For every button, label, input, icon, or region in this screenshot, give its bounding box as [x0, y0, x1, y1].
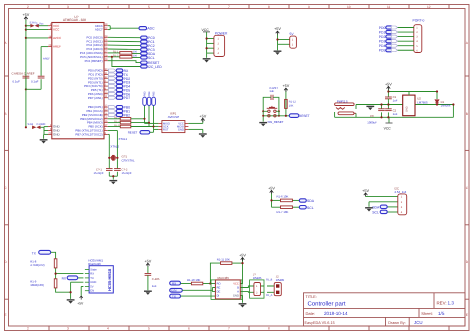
svg-text:R1_B: R1_B	[266, 278, 273, 281]
svg-text:1uF: 1uF	[269, 89, 274, 93]
svg-text:0.1uF: 0.1uF	[13, 80, 21, 84]
svg-text:REV:: REV:	[437, 301, 447, 306]
svg-text:R1-7 10K: R1-7 10K	[277, 210, 289, 214]
svg-text:5: 5	[148, 327, 150, 331]
svg-text:3: 3	[67, 327, 69, 331]
svg-text:Date:: Date:	[306, 311, 316, 316]
svg-text:R1_A: R1_A	[266, 294, 273, 297]
svg-text:9: 9	[308, 5, 310, 9]
svg-text:Drawn By:: Drawn By:	[388, 321, 406, 325]
svg-text:Controller part: Controller part	[308, 301, 346, 308]
svg-text:5V: 5V	[90, 286, 93, 289]
svg-text:VCC: VCC	[233, 283, 239, 286]
svg-text:C0: C0	[370, 114, 374, 118]
svg-text:RS485: RS485	[276, 278, 285, 282]
svg-text:EN: EN	[90, 290, 94, 293]
svg-text:4: 4	[107, 5, 109, 9]
svg-text:E: E	[466, 313, 468, 317]
svg-text:GND: GND	[406, 106, 409, 112]
svg-text:1000uF: 1000uF	[367, 121, 377, 125]
svg-text:JCU: JCU	[414, 320, 423, 325]
svg-text:RE: RE	[217, 287, 221, 290]
svg-text:SDA: SDA	[307, 199, 315, 203]
svg-text:PD0: PD0	[379, 26, 386, 30]
svg-text:6: 6	[188, 5, 190, 9]
svg-text:B: B	[466, 112, 468, 116]
svg-text:8: 8	[268, 327, 270, 331]
svg-text:PD7: PD7	[124, 96, 131, 100]
svg-text:2: 2	[27, 5, 29, 9]
svg-text:C-485: C-485	[152, 277, 160, 281]
svg-text:12: 12	[427, 5, 431, 9]
svg-text:C-MEGA C-AREF: C-MEGA C-AREF	[12, 71, 35, 75]
svg-text:HC05-HM18: HC05-HM18	[107, 268, 112, 291]
svg-text:TX: TX	[90, 277, 94, 280]
svg-text:I2C_LED: I2C_LED	[148, 65, 162, 69]
svg-text:C?-2: C?-2	[122, 169, 128, 172]
svg-text:R1-2: R1-2	[113, 55, 119, 58]
svg-text:AVCC: AVCC	[53, 36, 62, 40]
svg-text:SCL: SCL	[372, 210, 379, 214]
svg-text:RESET: RESET	[299, 114, 310, 118]
svg-text:SCL: SCL	[148, 56, 155, 60]
svg-text:ADC: ADC	[147, 27, 155, 31]
svg-text:100: 100	[133, 51, 138, 54]
svg-text:PORT-0: PORT-0	[413, 19, 425, 23]
svg-text:ATMEGA8 - 328: ATMEGA8 - 328	[63, 18, 86, 22]
svg-text:10KΩ(103): 10KΩ(103)	[30, 283, 44, 287]
svg-text:POWER: POWER	[215, 31, 228, 35]
svg-text:R1-1: R1-1	[113, 51, 119, 54]
svg-text:DI: DI	[217, 295, 220, 298]
svg-text:LM7805: LM7805	[417, 100, 428, 104]
svg-text:1/5: 1/5	[438, 311, 445, 316]
svg-text:XTAL1: XTAL1	[119, 137, 128, 141]
svg-text:CRYSTAL: CRYSTAL	[122, 159, 135, 163]
svg-text:15-22pF: 15-22pF	[122, 172, 132, 175]
svg-text:C?-1: C?-1	[96, 169, 102, 172]
svg-text:AVR-ISP: AVR-ISP	[168, 115, 179, 119]
svg-text:7: 7	[228, 5, 230, 9]
svg-text:PB2: PB2	[124, 113, 131, 117]
svg-text:2: 2	[27, 327, 29, 331]
svg-text:PD7 (AIN1): PD7 (AIN1)	[88, 96, 103, 100]
svg-text:EasyEDA V5.6.15: EasyEDA V5.6.15	[305, 321, 335, 325]
svg-text:2018-10-14: 2018-10-14	[324, 311, 348, 316]
svg-text:SDA: SDA	[372, 205, 380, 209]
svg-text:5_Vcc: 5_Vcc	[36, 23, 44, 26]
svg-text:VCC: VCC	[202, 28, 210, 32]
svg-text:AREF: AREF	[53, 45, 61, 49]
svg-text:6: 6	[188, 327, 190, 331]
svg-text:3: 3	[67, 5, 69, 9]
svg-text:RO: RO	[217, 283, 221, 286]
svg-text:8: 8	[268, 5, 270, 9]
svg-text:PB7 (XTAL2/TOSC2): PB7 (XTAL2/TOSC2)	[75, 133, 102, 137]
svg-text:PB5: PB5	[153, 91, 156, 96]
svg-text:XTAL2: XTAL2	[110, 144, 119, 148]
svg-text:10: 10	[347, 5, 351, 9]
svg-text:PB3: PB3	[144, 91, 147, 96]
svg-text:RESET: RESET	[128, 130, 138, 134]
svg-text:R1-6 10K: R1-6 10K	[277, 195, 289, 199]
svg-text:VCC: VCC	[384, 127, 392, 131]
svg-text:E: E	[4, 313, 6, 317]
svg-text:1.3: 1.3	[448, 301, 455, 306]
svg-text:1N4004: 1N4004	[441, 104, 451, 108]
svg-text:RS485: RS485	[253, 276, 262, 280]
svg-text:RX: RX	[90, 273, 94, 276]
svg-text:GND: GND	[53, 133, 61, 137]
svg-text:11: 11	[387, 5, 391, 9]
svg-text:PC6 (RESET): PC6 (RESET)	[85, 59, 103, 63]
svg-text:DE: DE	[217, 291, 221, 294]
svg-text:4.7KΩ(472): 4.7KΩ(472)	[30, 263, 44, 267]
svg-text:PD1: PD1	[379, 30, 386, 34]
svg-text:A: A	[237, 291, 239, 294]
svg-text:PD5: PD5	[379, 49, 386, 53]
svg-text:SCL: SCL	[307, 206, 314, 210]
svg-text:ADC7: ADC7	[95, 28, 103, 32]
svg-text:RST: RST	[163, 128, 169, 131]
svg-text:GND: GND	[178, 128, 184, 131]
svg-text:10K: 10K	[289, 105, 294, 108]
svg-text:AREF: AREF	[43, 58, 50, 61]
svg-text:SJ-N: SJ-N	[30, 21, 36, 24]
svg-text:B: B	[237, 287, 239, 290]
svg-text:TITLE:: TITLE:	[306, 295, 317, 299]
svg-text:State: State	[90, 268, 97, 271]
svg-text:2.54_1x4: 2.54_1x4	[395, 190, 407, 194]
svg-text:PD2: PD2	[379, 35, 386, 39]
svg-text:TX: TX	[172, 294, 176, 298]
svg-text:SJ-8: SJ-8	[28, 123, 34, 126]
svg-text:VCC: VCC	[53, 28, 60, 32]
svg-text:1uF: 1uF	[393, 98, 398, 102]
svg-text:100: 100	[133, 55, 138, 58]
svg-text:MAX485: MAX485	[218, 276, 230, 280]
svg-text:SW_RESET: SW_RESET	[268, 120, 284, 124]
svg-text:R1-11 10K: R1-11 10K	[217, 258, 230, 262]
svg-text:B: B	[4, 112, 6, 116]
svg-text:0.1uF: 0.1uF	[31, 80, 39, 84]
svg-text:PD4: PD4	[379, 44, 386, 48]
svg-text:RX: RX	[172, 281, 176, 285]
svg-text:GND: GND	[90, 281, 96, 284]
svg-text:4: 4	[107, 327, 109, 331]
svg-text:Sheet:: Sheet:	[421, 311, 433, 316]
svg-text:PB4: PB4	[148, 91, 151, 96]
svg-text:5: 5	[148, 5, 150, 9]
svg-text:15-22pF: 15-22pF	[94, 172, 104, 175]
svg-text:R1-12: R1-12	[289, 100, 297, 103]
svg-text:GND: GND	[233, 295, 239, 298]
svg-text:C-GND: C-GND	[37, 123, 46, 126]
svg-text:+5V: +5V	[77, 302, 84, 306]
svg-text:1uF: 1uF	[393, 112, 398, 116]
svg-text:1uF: 1uF	[152, 284, 157, 288]
svg-text:R1-10 10K: R1-10 10K	[187, 278, 201, 282]
svg-text:E/N: E/N	[171, 289, 176, 293]
svg-text:7: 7	[228, 327, 230, 331]
svg-text:PD3: PD3	[379, 39, 386, 43]
